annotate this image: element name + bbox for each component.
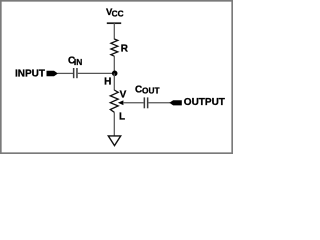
svg-text:OUT: OUT (142, 86, 160, 96)
svg-text:V: V (120, 89, 127, 100)
wire CIN to node H (78, 72, 115, 74)
svg-text:L: L (119, 112, 125, 123)
VCC terminal bar (107, 22, 121, 24)
svg-text:IN: IN (74, 57, 82, 67)
svg-text:R: R (121, 44, 129, 55)
wire VCC to R (113, 23, 115, 39)
capacitor COUT (144, 97, 149, 108)
wire COUT to output arrow (149, 102, 171, 104)
wire input arrow to CIN (58, 72, 74, 74)
output terminal arrow (169, 100, 182, 105)
svg-text:INPUT: INPUT (15, 68, 45, 79)
wire potentiometer to ground (113, 112, 115, 135)
wire wiper to COUT (123, 102, 144, 104)
capacitor CIN (73, 68, 78, 78)
resistor R (111, 39, 118, 56)
potentiometer resistor body (110, 90, 118, 112)
input terminal arrow (47, 71, 59, 76)
svg-text:CC: CC (112, 8, 124, 18)
potentiometer wiper arrow (118, 100, 124, 105)
border frame (1, 1, 232, 153)
VCC label (106, 7, 124, 19)
ground (108, 136, 120, 146)
label COUT (135, 84, 160, 95)
label CIN (68, 55, 82, 67)
node H junction dot (112, 71, 118, 77)
svg-text:H: H (104, 77, 111, 88)
wire node H to potentiometer (113, 73, 115, 90)
wire R to node H (113, 56, 115, 73)
svg-text:OUTPUT: OUTPUT (184, 97, 225, 108)
